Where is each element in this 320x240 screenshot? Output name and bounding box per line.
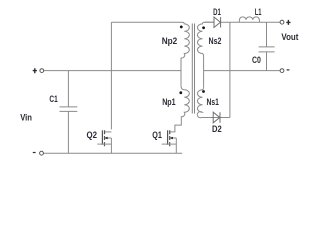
wire D2 cathode to top node xyxy=(229,22,231,117)
diode D1 xyxy=(214,17,221,28)
svg-text:C0: C0 xyxy=(252,55,261,65)
terminal Vout+ xyxy=(280,20,284,24)
svg-text:Q2: Q2 xyxy=(87,130,98,140)
capacitor C1 xyxy=(60,71,78,154)
wire primary center tap xyxy=(180,58,182,86)
wire secondary center tap xyxy=(203,56,205,86)
diode D2 xyxy=(213,112,220,123)
transistor Q1 xyxy=(162,130,177,153)
wire Q2 drain riser (crosses Vin+ rail, no junction) xyxy=(110,22,112,129)
svg-text:L1: L1 xyxy=(255,7,262,17)
transformer winding Np2 xyxy=(181,22,189,58)
svg-text:D1: D1 xyxy=(213,7,221,17)
svg-text:Q1: Q1 xyxy=(152,130,162,140)
svg-text:Vin: Vin xyxy=(20,113,32,123)
svg-text:Np2: Np2 xyxy=(162,36,178,46)
wire top right (D1 out to L1 to Vout+) xyxy=(221,21,281,23)
svg-text:C1: C1 xyxy=(49,94,57,104)
transformer winding Np1 xyxy=(170,85,190,131)
svg-text:D2: D2 xyxy=(212,124,222,134)
dot Ns2 xyxy=(202,26,205,29)
dot Np2 xyxy=(180,26,183,29)
svg-text:Ns2: Ns2 xyxy=(209,36,222,46)
wire D1 anode xyxy=(204,21,214,23)
wire Vin+ rail xyxy=(44,70,181,72)
capacitor C0 xyxy=(259,22,275,70)
wire Vin- rail xyxy=(43,152,182,154)
transformer winding Ns2 xyxy=(198,22,214,56)
svg-text:Ns1: Ns1 xyxy=(207,97,219,107)
dot Np1 xyxy=(179,91,182,94)
inductor L1 xyxy=(239,17,259,22)
wire Np2 top lead horizontal xyxy=(111,21,182,23)
transformer winding Ns1 xyxy=(197,86,203,118)
terminal Vin+ xyxy=(40,69,44,73)
svg-text:Np1: Np1 xyxy=(162,97,175,107)
terminal Vin- xyxy=(40,151,44,155)
terminal Vout- xyxy=(280,69,284,73)
transistor Q2 xyxy=(97,130,111,153)
wire Vout- rail xyxy=(204,70,281,72)
transformer core xyxy=(192,24,194,114)
svg-text:Vout: Vout xyxy=(281,32,298,42)
dot Ns1 xyxy=(202,90,205,93)
wire D2 anode-cathode run xyxy=(202,117,230,119)
